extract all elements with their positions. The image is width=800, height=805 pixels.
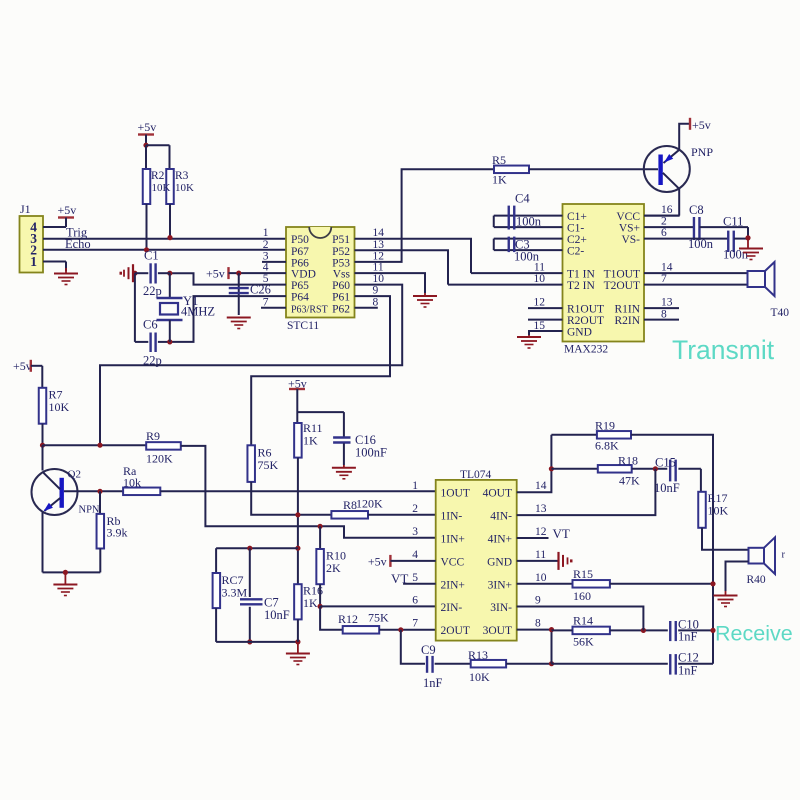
- svg-text:C1-: C1-: [567, 223, 584, 235]
- svg-text:7: 7: [661, 273, 667, 285]
- svg-text:12: 12: [534, 297, 546, 309]
- svg-text:1: 1: [412, 480, 418, 492]
- svg-text:11: 11: [373, 262, 384, 274]
- svg-text:+5v: +5v: [138, 120, 157, 134]
- svg-text:13: 13: [373, 239, 385, 251]
- svg-text:8: 8: [661, 308, 667, 320]
- svg-text:14: 14: [661, 262, 673, 274]
- svg-text:R13: R13: [468, 648, 488, 662]
- svg-text:6: 6: [412, 595, 418, 607]
- svg-text:R14: R14: [573, 614, 593, 628]
- svg-text:R15: R15: [573, 567, 593, 581]
- svg-text:47K: 47K: [619, 474, 640, 488]
- svg-text:3OUT: 3OUT: [483, 625, 512, 637]
- svg-text:R9: R9: [146, 429, 160, 443]
- svg-text:R1OUT: R1OUT: [567, 304, 604, 316]
- svg-text:1IN+: 1IN+: [441, 534, 465, 546]
- svg-text:3IN-: 3IN-: [490, 602, 512, 614]
- svg-text:6: 6: [661, 227, 667, 239]
- svg-text:R12: R12: [338, 612, 358, 626]
- svg-text:P51: P51: [332, 234, 350, 246]
- svg-text:7: 7: [412, 618, 418, 630]
- svg-text:C15: C15: [655, 456, 676, 470]
- svg-text:1nF: 1nF: [678, 630, 698, 644]
- svg-text:4IN+: 4IN+: [488, 534, 512, 546]
- svg-text:P64: P64: [291, 292, 309, 304]
- svg-text:1K: 1K: [303, 596, 318, 610]
- svg-text:9: 9: [535, 595, 541, 607]
- svg-text:Q2: Q2: [68, 469, 81, 481]
- svg-text:P65: P65: [291, 280, 309, 292]
- svg-text:4: 4: [263, 262, 269, 274]
- svg-text:2: 2: [661, 216, 667, 228]
- svg-text:1IN-: 1IN-: [441, 511, 463, 523]
- svg-text:STC11: STC11: [287, 320, 319, 332]
- svg-text:VCC: VCC: [616, 211, 640, 223]
- svg-text:P62: P62: [332, 303, 350, 315]
- svg-text:10K: 10K: [469, 670, 490, 684]
- svg-text:P50: P50: [291, 234, 309, 246]
- svg-text:13: 13: [535, 503, 547, 515]
- svg-text:Transmit: Transmit: [672, 335, 775, 365]
- svg-text:R40: R40: [747, 574, 766, 586]
- svg-text:120K: 120K: [146, 452, 173, 466]
- svg-text:75K: 75K: [258, 458, 279, 472]
- svg-text:2: 2: [263, 239, 269, 251]
- svg-text:T1 IN: T1 IN: [567, 268, 595, 280]
- svg-text:2IN-: 2IN-: [441, 602, 463, 614]
- svg-text:C8: C8: [689, 203, 704, 217]
- svg-text:1K: 1K: [492, 173, 507, 187]
- svg-text:R2IN: R2IN: [614, 315, 640, 327]
- svg-text:R19: R19: [595, 419, 615, 433]
- svg-text:J1: J1: [20, 202, 31, 216]
- svg-text:4IN-: 4IN-: [490, 511, 512, 523]
- svg-text:3.3M: 3.3M: [222, 586, 248, 600]
- svg-text:C1+: C1+: [567, 211, 587, 223]
- svg-text:160: 160: [573, 589, 591, 603]
- svg-text:+5v: +5v: [206, 267, 225, 281]
- svg-text:10K: 10K: [152, 182, 171, 194]
- svg-text:2IN+: 2IN+: [441, 579, 465, 591]
- svg-text:+5v: +5v: [13, 359, 32, 373]
- svg-text:T2 IN: T2 IN: [567, 280, 595, 292]
- svg-text:TL074: TL074: [460, 469, 492, 481]
- svg-text:1OUT: 1OUT: [441, 488, 470, 500]
- svg-text:12: 12: [535, 526, 547, 538]
- svg-text:C1: C1: [144, 249, 159, 263]
- svg-text:P63/RST: P63/RST: [291, 304, 328, 315]
- svg-text:r: r: [782, 550, 786, 561]
- svg-text:P61: P61: [332, 292, 350, 304]
- svg-text:3.9k: 3.9k: [107, 526, 128, 540]
- svg-text:13: 13: [661, 297, 673, 309]
- svg-text:C11: C11: [723, 215, 743, 229]
- svg-text:P52: P52: [332, 246, 350, 258]
- svg-text:T2OUT: T2OUT: [604, 280, 640, 292]
- svg-text:C9: C9: [421, 643, 436, 657]
- svg-text:10K: 10K: [49, 400, 70, 414]
- svg-text:5: 5: [412, 572, 418, 584]
- svg-text:10k: 10k: [123, 476, 141, 490]
- svg-text:12: 12: [373, 250, 385, 262]
- svg-text:VDD: VDD: [291, 269, 316, 281]
- svg-text:1: 1: [263, 227, 269, 239]
- svg-text:C12: C12: [678, 651, 699, 665]
- svg-text:9: 9: [373, 285, 379, 297]
- svg-text:3IN+: 3IN+: [488, 579, 512, 591]
- svg-text:14: 14: [535, 480, 547, 492]
- svg-text:GND: GND: [487, 556, 512, 568]
- svg-text:R3: R3: [175, 170, 189, 182]
- svg-text:2OUT: 2OUT: [441, 625, 470, 637]
- svg-text:7: 7: [263, 296, 269, 308]
- svg-text:4: 4: [412, 549, 418, 561]
- svg-text:1nF: 1nF: [423, 676, 443, 690]
- svg-text:+5v: +5v: [58, 203, 77, 217]
- svg-text:2K: 2K: [326, 561, 341, 575]
- svg-text:R8: R8: [343, 498, 357, 512]
- svg-text:P53: P53: [332, 257, 350, 269]
- svg-text:T1OUT: T1OUT: [604, 268, 640, 280]
- svg-text:11: 11: [535, 549, 546, 561]
- svg-text:C2-: C2-: [567, 246, 584, 258]
- svg-text:22p: 22p: [143, 284, 162, 298]
- svg-text:R2: R2: [151, 170, 165, 182]
- svg-text:P67: P67: [291, 246, 309, 258]
- svg-text:4OUT: 4OUT: [483, 488, 512, 500]
- svg-text:P66: P66: [291, 257, 309, 269]
- svg-text:C6: C6: [143, 318, 158, 332]
- svg-text:+5v: +5v: [692, 118, 711, 132]
- svg-text:1: 1: [30, 254, 37, 269]
- svg-text:100nF: 100nF: [355, 446, 387, 460]
- svg-text:R18: R18: [618, 454, 638, 468]
- svg-text:10nF: 10nF: [654, 481, 680, 495]
- svg-text:3: 3: [263, 250, 269, 262]
- svg-text:8: 8: [373, 296, 379, 308]
- svg-text:Vss: Vss: [333, 269, 351, 281]
- svg-text:3: 3: [412, 526, 418, 538]
- svg-text:10: 10: [535, 572, 547, 584]
- svg-text:56K: 56K: [573, 635, 594, 649]
- svg-text:4MHZ: 4MHZ: [181, 305, 215, 319]
- svg-text:VCC: VCC: [441, 556, 465, 568]
- svg-text:GND: GND: [567, 327, 592, 339]
- svg-text:VS+: VS+: [619, 223, 640, 235]
- svg-text:100n: 100n: [514, 250, 540, 264]
- svg-text:10K: 10K: [175, 182, 194, 194]
- svg-text:10: 10: [373, 273, 385, 285]
- svg-text:16: 16: [661, 204, 673, 216]
- svg-text:PNP: PNP: [691, 145, 713, 159]
- svg-text:14: 14: [373, 227, 385, 239]
- svg-text:120K: 120K: [356, 497, 383, 511]
- svg-text:C2+: C2+: [567, 234, 587, 246]
- svg-text:6.8K: 6.8K: [595, 439, 619, 453]
- svg-text:Receive: Receive: [715, 622, 793, 646]
- svg-text:1nF: 1nF: [678, 664, 698, 678]
- svg-text:C4: C4: [515, 192, 530, 206]
- svg-text:100n: 100n: [723, 248, 749, 262]
- svg-text:VT: VT: [553, 526, 570, 541]
- svg-text:T40: T40: [771, 307, 790, 319]
- svg-text:10: 10: [534, 273, 546, 285]
- svg-text:R1IN: R1IN: [614, 304, 640, 316]
- svg-text:8: 8: [535, 618, 541, 630]
- svg-text:Echo: Echo: [65, 237, 91, 251]
- svg-text:100n: 100n: [516, 215, 542, 229]
- svg-text:1K: 1K: [303, 434, 318, 448]
- svg-text:MAX232: MAX232: [564, 344, 608, 356]
- svg-text:10K: 10K: [708, 504, 729, 518]
- svg-text:75K: 75K: [368, 611, 389, 625]
- svg-text:+5v: +5v: [368, 554, 387, 568]
- svg-text:R5: R5: [492, 153, 506, 167]
- svg-text:R2OUT: R2OUT: [567, 315, 604, 327]
- svg-text:10nF: 10nF: [264, 608, 290, 622]
- svg-text:P60: P60: [332, 280, 350, 292]
- svg-text:VT: VT: [391, 571, 408, 586]
- svg-text:2: 2: [412, 503, 418, 515]
- svg-text:VS-: VS-: [621, 234, 640, 246]
